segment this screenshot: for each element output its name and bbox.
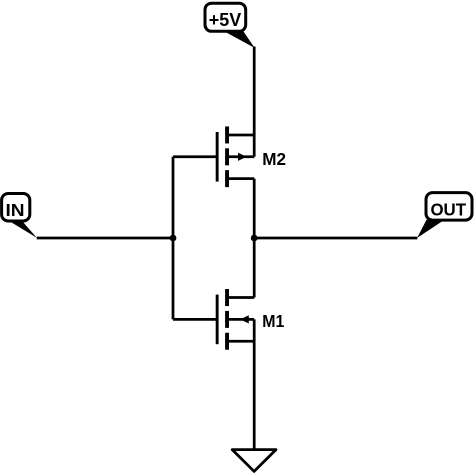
net flag IN bbox=[2, 194, 37, 238]
wire gate bus (M2 gate to M1 gate) bbox=[172, 157, 175, 320]
svg-text:+5V: +5V bbox=[209, 10, 241, 30]
M1 gate line bbox=[216, 295, 219, 345]
ground bbox=[232, 450, 276, 472]
M2 gate line bbox=[216, 132, 219, 182]
M2 channel bar bottom bbox=[225, 170, 229, 187]
transistor M1 (NMOS) bbox=[216, 289, 255, 350]
M1 drain lead (top, to output) bbox=[228, 296, 254, 299]
wire VDD rail from +5V flag to M2 source/body bbox=[253, 47, 256, 157]
wire M1 gate lead bbox=[173, 318, 217, 321]
M1 channel bar middle bbox=[225, 311, 229, 328]
node output junction bbox=[251, 235, 258, 242]
M2 body lead with arrow bbox=[228, 155, 254, 158]
svg-text:M1: M1 bbox=[262, 311, 284, 331]
transistor M2 (PMOS) bbox=[216, 126, 255, 187]
wire M2 drain down to output node and to M1 drain bbox=[253, 179, 256, 298]
svg-text:OUT: OUT bbox=[430, 199, 466, 219]
M1 channel bar bottom bbox=[225, 333, 229, 350]
svg-text:IN: IN bbox=[6, 200, 25, 220]
M2 source lead (top, to VDD) bbox=[228, 134, 254, 137]
net flag OUT bbox=[417, 193, 472, 238]
wire IN flag to gate node bbox=[37, 237, 173, 240]
wire M2 gate lead bbox=[173, 155, 217, 158]
M1 source lead (bottom) bbox=[228, 340, 254, 343]
wire output node to OUT flag bbox=[254, 237, 417, 240]
M1 channel bar top bbox=[225, 289, 229, 306]
node gate junction bbox=[170, 235, 177, 242]
M2 drain lead (bottom) bbox=[228, 177, 254, 180]
M2 channel bar top bbox=[225, 126, 229, 143]
power flag +5V bbox=[205, 3, 255, 48]
svg-text:M2: M2 bbox=[262, 149, 286, 169]
M2 channel bar middle bbox=[225, 148, 229, 165]
M1 body lead with arrow bbox=[228, 318, 254, 321]
wire M1 body/source down to ground bbox=[253, 319, 256, 449]
